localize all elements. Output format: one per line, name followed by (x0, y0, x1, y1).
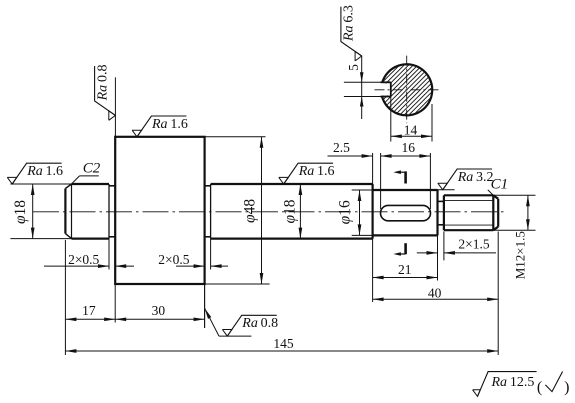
svg-text:21: 21 (398, 262, 412, 277)
svg-text:Ra 1.6: Ra 1.6 (151, 117, 188, 132)
svg-text:5: 5 (346, 64, 361, 71)
svg-text:2.5: 2.5 (333, 140, 350, 155)
svg-text:φ16: φ16 (337, 200, 354, 224)
svg-text:40: 40 (428, 285, 442, 300)
svg-text:C1: C1 (491, 176, 509, 192)
svg-text:14: 14 (404, 123, 418, 138)
svg-text:2×0.5: 2×0.5 (158, 252, 189, 267)
svg-text:C2: C2 (83, 161, 101, 177)
svg-text:2×0.5: 2×0.5 (68, 252, 99, 267)
svg-text:Ra 6.3: Ra 6.3 (342, 5, 357, 42)
svg-text:17: 17 (82, 303, 96, 318)
svg-text:Ra 12.5: Ra 12.5 (491, 375, 535, 390)
svg-text:(: ( (537, 379, 542, 396)
svg-text:Ra 1.6: Ra 1.6 (26, 164, 63, 179)
svg-text:145: 145 (273, 336, 294, 351)
svg-text:φ18: φ18 (12, 200, 29, 224)
svg-text:16: 16 (401, 140, 415, 155)
svg-text:Ra 1.6: Ra 1.6 (298, 164, 335, 179)
svg-text:M12×1.5: M12×1.5 (513, 231, 528, 279)
svg-text:2×1.5: 2×1.5 (458, 236, 489, 251)
svg-text:φ48: φ48 (241, 199, 258, 223)
svg-text:Ra 0.8: Ra 0.8 (241, 316, 278, 331)
svg-text:Ra 0.8: Ra 0.8 (95, 65, 110, 102)
svg-text:): ) (564, 379, 569, 396)
svg-text:φ18: φ18 (282, 199, 299, 223)
svg-text:30: 30 (152, 303, 166, 318)
svg-text:Ra 3.2: Ra 3.2 (457, 170, 494, 185)
